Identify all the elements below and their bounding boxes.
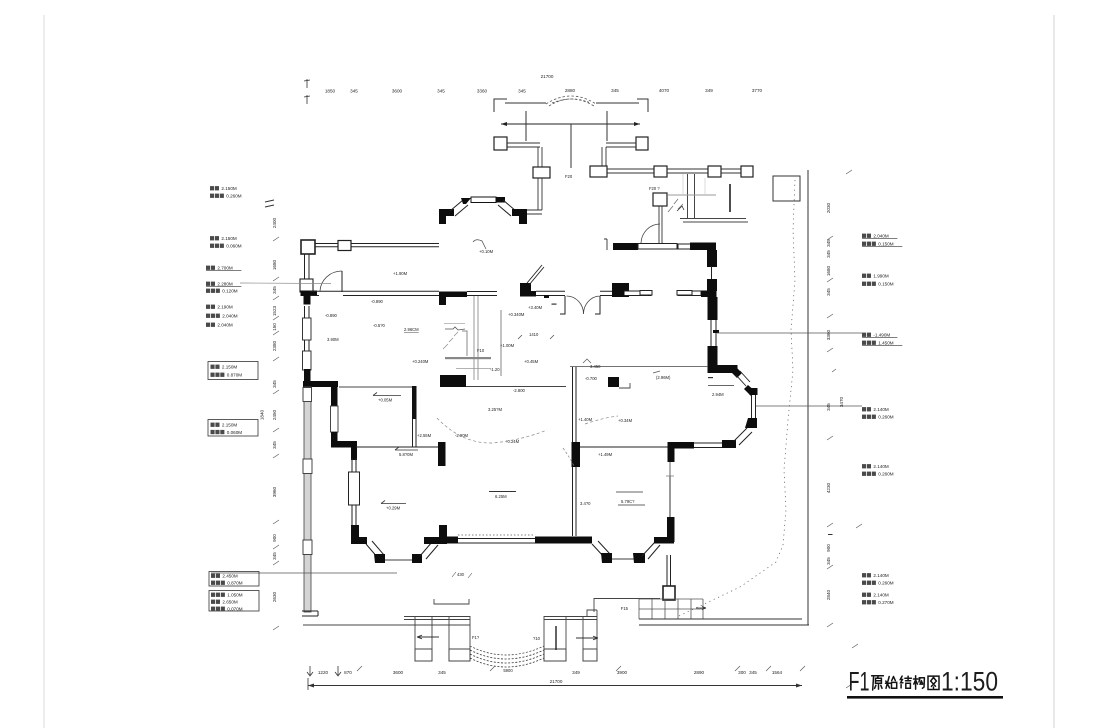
svg-text:1840: 1840	[260, 409, 265, 420]
note block 5	[206, 305, 210, 309]
leader east lower	[756, 405, 862, 407]
wall y447 west	[356, 446, 441, 448]
se leader tick	[666, 462, 674, 476]
gate right bracket	[637, 99, 648, 112]
bay right foot black	[512, 209, 527, 224]
svg-text:+0.05M: +0.05M	[378, 398, 393, 403]
se wall black vertical	[667, 517, 675, 542]
dining top wall thin	[640, 244, 654, 250]
west wall black segment	[301, 291, 318, 305]
svg-text:-0.890: -0.890	[325, 313, 338, 318]
svg-text:5.79C?: 5.79C?	[621, 499, 635, 504]
dining bottom window W	[640, 291, 652, 296]
wall black column entry	[612, 283, 629, 297]
fence vertical double	[602, 147, 606, 166]
family south wall double	[694, 443, 722, 448]
svg-text:2030: 2030	[826, 202, 831, 213]
sbay foot black W	[601, 553, 612, 563]
fence wall double	[607, 169, 654, 173]
svg-text:1220: 1220	[318, 670, 329, 675]
stair bracket	[462, 331, 467, 356]
sbay foot black E	[633, 553, 645, 563]
svg-text:+0.240M: +0.240M	[412, 359, 429, 364]
stair partition double	[474, 296, 478, 380]
svg-text:345: 345	[438, 670, 446, 675]
svg-text:+0.45M: +0.45M	[524, 359, 539, 364]
svg-text:345: 345	[518, 89, 526, 94]
svg-text:345: 345	[272, 380, 277, 388]
door swing arc	[320, 271, 342, 291]
porch verticals	[415, 616, 470, 661]
bay foot black W	[374, 554, 385, 563]
svg-text:F20: F20	[565, 174, 573, 179]
fence post	[741, 166, 753, 177]
svg-text:1.450M: 1.450M	[878, 341, 893, 346]
svg-text:2880: 2880	[565, 88, 576, 93]
svg-text:300: 300	[738, 670, 746, 675]
svg-text:0.270M: 0.270M	[878, 600, 893, 605]
east wall black low	[707, 279, 717, 291]
svg-text:0.060M: 0.060M	[226, 244, 241, 249]
east wall black lower	[708, 346, 718, 373]
fence post	[636, 137, 648, 150]
ground line left	[303, 624, 470, 626]
step bracket	[434, 599, 469, 604]
svg-text:-0.890: -0.890	[371, 299, 384, 304]
leader west upper	[240, 282, 331, 285]
svg-text:3960: 3960	[272, 486, 277, 497]
svg-text:3770: 3770	[752, 88, 763, 93]
note block 1	[210, 186, 214, 190]
interior wall black vertical low	[331, 432, 338, 447]
bottom overall arrowheads	[308, 684, 802, 688]
bay foot black E	[412, 554, 422, 563]
note block 4	[206, 282, 210, 286]
svg-text:2.650M: 2.650M	[222, 600, 237, 605]
svg-text:0.150M: 0.150M	[878, 242, 893, 247]
svg-text:2.94M: 2.94M	[712, 392, 724, 397]
right dim ticks	[827, 170, 862, 688]
stair top line	[444, 323, 465, 325]
ne planter rect	[773, 176, 800, 201]
svg-text:2400: 2400	[272, 217, 277, 228]
svg-text:345: 345	[350, 89, 358, 94]
svg-text:0.870M: 0.870M	[227, 581, 242, 586]
note block r6	[862, 573, 866, 577]
wall y447 east	[580, 446, 668, 448]
entry bracket W	[604, 239, 607, 250]
sebay corner black upper	[745, 418, 757, 428]
bay left diag black cap	[461, 198, 471, 204]
svg-text:0.120M: 0.120M	[222, 289, 237, 294]
east wall black	[707, 250, 717, 267]
title glyph gou	[914, 676, 925, 689]
title underline	[847, 696, 1003, 699]
partition double vertical	[412, 386, 417, 419]
svg-text:345: 345	[826, 288, 831, 296]
bay left diagonal window	[450, 200, 468, 216]
crossing tick left	[525, 111, 527, 141]
site boundary south line2	[639, 624, 809, 626]
page edge left	[43, 15, 45, 728]
fence post	[654, 166, 667, 177]
wall y292 west part	[310, 291, 439, 295]
fence line left of gate	[505, 102, 546, 104]
curved steps dashed	[470, 650, 544, 659]
svg-text:0.070M: 0.070M	[227, 607, 242, 612]
svg-text:3600: 3600	[392, 89, 403, 94]
svg-text:2380: 2380	[272, 340, 277, 351]
title glyph tu	[928, 676, 939, 689]
svg-text:F10: F10	[477, 348, 485, 353]
sbay corner black E	[654, 537, 674, 544]
svg-text:2.280M: 2.280M	[217, 282, 232, 287]
leader arc +0.10M	[473, 240, 486, 249]
left dim arrows	[265, 200, 274, 207]
east wall window double	[711, 266, 713, 280]
svg-text:349: 349	[572, 670, 580, 675]
bay top black right cap	[496, 197, 505, 203]
gate center drop line	[570, 124, 572, 168]
fence post	[494, 137, 507, 150]
wall double	[536, 291, 613, 295]
bay bottom sill line	[385, 559, 413, 561]
interior corner black	[331, 441, 357, 460]
note block 8 boxed	[209, 572, 259, 587]
window box	[349, 472, 360, 505]
svg-text:21700: 21700	[541, 74, 554, 79]
west wall upper double	[305, 254, 310, 280]
bottom left tick	[307, 678, 309, 690]
stair rail double	[688, 174, 695, 218]
svg-text:F1?: F1?	[472, 635, 480, 640]
sbay sill	[612, 558, 634, 560]
svg-text:+0.340M: +0.340M	[508, 312, 525, 317]
svg-text:1410: 1410	[529, 332, 539, 337]
east wall black upper	[708, 297, 718, 320]
porch top band	[404, 617, 470, 620]
svg-text:+3.40M: +3.40M	[528, 305, 543, 310]
column black mid	[572, 442, 581, 467]
rear step top right	[587, 610, 597, 616]
page edge right	[1053, 15, 1055, 728]
title glyph shi	[886, 677, 897, 689]
fence post	[590, 166, 607, 177]
note block 7 boxed	[208, 420, 258, 437]
svg-text:1523: 1523	[272, 305, 277, 316]
svg-text:2.150M: 2.150M	[221, 236, 236, 241]
corner door diagonal lines	[736, 371, 750, 386]
svg-text:3900: 3900	[617, 670, 628, 675]
note block r3	[862, 333, 866, 337]
dashed drop at wall	[563, 448, 574, 466]
bottom overall line	[308, 685, 802, 687]
svg-text:+1.49M: +1.49M	[598, 452, 613, 457]
svg-text:6.25M: 6.25M	[495, 494, 507, 499]
svg-text:+0.10M: +0.10M	[479, 249, 494, 254]
stair landing line	[680, 219, 748, 223]
svg-text:345: 345	[611, 88, 619, 93]
porch bottom block E	[449, 649, 470, 661]
svg-text:900: 900	[272, 534, 277, 542]
rear bottom block E	[583, 649, 597, 661]
window box	[303, 459, 312, 474]
divider black mid	[440, 375, 466, 387]
sbay diag window E	[642, 542, 660, 559]
column black	[438, 442, 446, 466]
door leaf	[341, 271, 343, 292]
family south wall black bar	[668, 442, 694, 449]
west wall mid double	[305, 306, 310, 374]
svg-text:-2.90M: -2.90M	[455, 433, 469, 438]
svg-text:+0.24M: +0.24M	[505, 439, 520, 444]
svg-text:3.4?0: 3.4?0	[580, 501, 591, 506]
corner post NW	[301, 240, 315, 254]
svg-text:2.040M: 2.040M	[222, 314, 237, 319]
sebay window double vertical	[752, 394, 756, 418]
svg-text:345: 345	[826, 557, 831, 565]
door leaf diagonal	[527, 265, 544, 285]
svg-text:3360: 3360	[826, 329, 831, 340]
stair lower line	[456, 368, 491, 370]
rear steps top band	[544, 617, 597, 620]
svg-text:4230: 4230	[826, 482, 831, 493]
svg-text:0.260M: 0.260M	[226, 194, 241, 199]
wall post	[338, 241, 351, 251]
svg-text:345: 345	[272, 552, 277, 560]
fence wall vertical double	[538, 147, 542, 167]
stair cross vertical	[683, 174, 705, 195]
svg-text:F1: F1	[849, 667, 870, 697]
svg-text:?10: ?10	[533, 636, 541, 641]
entry top wall black W	[613, 243, 638, 250]
svg-text:1.050M: 1.050M	[227, 593, 242, 598]
gate swing dashed arcs	[546, 96, 596, 104]
svg-text:2.140M: 2.140M	[873, 407, 888, 412]
note block 3	[206, 266, 210, 270]
svg-text:2.700M: 2.700M	[217, 266, 232, 271]
sebay diag window	[734, 428, 752, 445]
leader west lower	[211, 572, 397, 574]
svg-text:5900: 5900	[503, 668, 513, 673]
south wall black E	[535, 537, 592, 544]
garden wall double	[659, 206, 662, 243]
gate left bracket	[494, 99, 507, 112]
french door frame	[595, 296, 600, 314]
left dim ticks	[273, 237, 279, 630]
bay pillar W black	[351, 525, 367, 544]
svg-text:5.8?0M: 5.8?0M	[399, 452, 413, 457]
leader east upper	[717, 332, 862, 334]
interior wall black vertical	[331, 382, 338, 406]
svg-text:3600: 3600	[393, 670, 404, 675]
wall double east	[678, 291, 701, 296]
divider wall y387	[339, 386, 414, 388]
svg-text:3360: 3360	[477, 89, 488, 94]
se window line	[669, 462, 671, 517]
window box	[303, 318, 312, 340]
rear bottom block W	[544, 649, 566, 661]
south window dotted	[458, 534, 535, 536]
sbay diag window W	[592, 541, 610, 557]
window tick	[544, 295, 549, 298]
svg-text:430: 430	[457, 572, 465, 577]
fence post	[533, 167, 550, 178]
svg-text:345: 345	[826, 239, 831, 247]
svg-text:0.260M: 0.260M	[878, 472, 893, 477]
bay diag window W	[366, 541, 384, 558]
svg-text:0.260M: 0.260M	[878, 581, 893, 586]
svg-text:2.96CM: 2.96CM	[404, 327, 419, 332]
dashed level leader curve	[437, 418, 547, 443]
svg-text:1.990M: 1.990M	[873, 274, 888, 279]
window box	[303, 388, 312, 402]
outdoor stair grid	[639, 599, 703, 619]
dining bottom window E	[677, 291, 692, 296]
corner black L west	[303, 381, 338, 387]
right dim dash	[828, 534, 833, 535]
bay diag window E	[420, 542, 438, 559]
fence elbow to bay	[527, 210, 542, 214]
wall end cap	[302, 611, 318, 616]
porch bottom block W	[415, 649, 432, 661]
svg-text:345: 345	[826, 250, 831, 258]
road centerline with arrows	[501, 123, 640, 125]
wall window double	[467, 292, 497, 296]
svg-text:2.040M: 2.040M	[873, 234, 888, 239]
crossing tick right	[606, 111, 608, 141]
note block r5	[862, 464, 866, 468]
svg-text:1680: 1680	[272, 259, 277, 270]
french door arcs	[567, 296, 600, 314]
svg-text:2450: 2450	[272, 409, 277, 420]
window sill box	[300, 279, 313, 292]
entry top wall black E	[690, 243, 716, 251]
svg-text:2.450M: 2.450M	[222, 574, 237, 579]
interior wall window box	[331, 406, 339, 432]
fence post	[708, 166, 721, 177]
svg-text:1850: 1850	[325, 89, 336, 94]
sebay corner black	[722, 440, 736, 448]
svg-text:21700: 21700	[550, 679, 563, 684]
fence wall double	[667, 169, 708, 173]
note block r4	[862, 407, 866, 411]
west partition double low	[352, 458, 356, 525]
svg-text:1680: 1680	[826, 265, 831, 276]
stair column double	[667, 555, 671, 588]
garden post	[653, 193, 667, 206]
note block r7	[862, 593, 866, 597]
room divider line	[570, 366, 708, 368]
top wall double	[315, 244, 339, 247]
stair dashes	[443, 332, 458, 349]
svg-text:2.190M: 2.190M	[217, 305, 232, 310]
stair thick landing	[445, 357, 491, 359]
stair squiggle line	[445, 327, 465, 330]
site boundary east	[807, 170, 809, 625]
stair zigzag dashes	[668, 199, 683, 212]
east window double	[711, 320, 716, 346]
svg-text:345: 345	[272, 441, 277, 449]
family partition double	[573, 367, 577, 442]
svg-text:2.040M: 2.040M	[217, 323, 232, 328]
note block 6 boxed	[208, 362, 258, 380]
entry top wall thin	[678, 244, 691, 249]
fence wall double	[721, 169, 741, 173]
black box stair living	[608, 377, 619, 387]
bay pillar E black	[424, 525, 447, 544]
svg-text:345: 345	[749, 670, 757, 675]
door pier black low	[526, 291, 536, 297]
fence wall vertical double	[538, 178, 542, 210]
svg-text:+1.00M: +1.00M	[500, 343, 515, 348]
west wall black above corner	[304, 369, 311, 382]
site dashed boundary	[679, 180, 795, 616]
fence line right of gate	[596, 102, 639, 104]
svg-text:870: 870	[344, 670, 352, 675]
svg-text:900: 900	[826, 544, 831, 552]
fence wall double	[606, 143, 636, 147]
svg-text:2.140M: 2.140M	[873, 593, 888, 598]
door pier black	[520, 283, 531, 297]
svg-text:2890: 2890	[694, 670, 705, 675]
stair arrow	[677, 206, 684, 211]
bottom dim arrows	[307, 666, 341, 676]
stair partition right	[500, 310, 502, 376]
site boundary south line1	[639, 618, 802, 620]
window box	[303, 540, 312, 555]
svg-text:0.870M: 0.870M	[227, 373, 242, 378]
south window double	[458, 539, 535, 544]
wall stub	[729, 184, 731, 212]
svg-text:+1.90M: +1.90M	[393, 271, 408, 276]
west wall gray band low	[304, 387, 311, 612]
svg-text:0.260M: 0.260M	[878, 415, 893, 420]
svg-text:+1.40M: +1.40M	[578, 417, 593, 422]
east window tick	[713, 330, 719, 333]
note block 9 boxed	[209, 591, 259, 612]
note block 2	[210, 236, 214, 240]
bay top window	[471, 197, 496, 203]
svg-text:+0.34M: +0.34M	[618, 418, 633, 423]
corner black SE of dining	[701, 291, 717, 298]
svg-text:3.25?M: 3.25?M	[488, 407, 502, 412]
svg-text:345: 345	[437, 89, 445, 94]
top wall double long	[351, 244, 439, 247]
svg-text:2.150M: 2.150M	[222, 365, 237, 370]
svg-text:3.450: 3.450	[590, 364, 601, 369]
svg-text:-0.5?0: -0.5?0	[373, 323, 386, 328]
svg-text:0.060M: 0.060M	[227, 430, 242, 435]
window box	[303, 351, 312, 370]
svg-text:345: 345	[272, 286, 277, 294]
corner door diag caps	[731, 366, 742, 378]
bay left foot black	[439, 209, 454, 224]
entry door arc	[641, 224, 660, 243]
svg-text:3.90M: 3.90M	[327, 337, 339, 342]
family partition low	[573, 467, 577, 536]
svg-text:345: 345	[826, 403, 831, 411]
fence wall double	[507, 143, 540, 147]
corner wall black horiz	[708, 365, 738, 373]
title glyph yuan	[872, 676, 884, 690]
stair tread line	[668, 194, 716, 196]
svg-text:150: 150	[272, 323, 277, 331]
svg-text:1:150: 1:150	[941, 667, 998, 697]
svg-text:2.140M: 2.140M	[873, 464, 888, 469]
grid arrow	[696, 607, 706, 610]
svg-text:-1.20: -1.20	[490, 367, 500, 372]
